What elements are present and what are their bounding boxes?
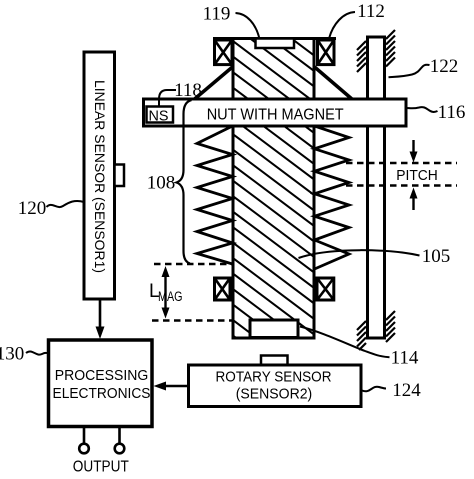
leader 120 bbox=[47, 201, 85, 207]
svg-text:105: 105 bbox=[422, 246, 451, 267]
output terminal left bbox=[79, 427, 89, 454]
screw thread flare above nut right bbox=[314, 67, 353, 100]
processing electronics 130 box bbox=[49, 340, 153, 427]
svg-text:112: 112 bbox=[357, 1, 385, 22]
fixed wall 122 bbox=[357, 30, 395, 350]
svg-text:118: 118 bbox=[174, 80, 202, 101]
lead screw shaft 105 hatched body bbox=[233, 0, 314, 396]
leader 118 bbox=[159, 90, 176, 106]
screw thread 108 left zigzag bbox=[197, 126, 233, 264]
svg-text:130: 130 bbox=[0, 344, 24, 365]
pitch dashed line upper bbox=[346, 162, 457, 164]
wire sensor1 to processing bbox=[96, 299, 105, 339]
svg-text:PROCESSING: PROCESSING bbox=[55, 367, 149, 384]
svg-text:ROTARY SENSOR: ROTARY SENSOR bbox=[216, 370, 332, 386]
leader 116 bbox=[407, 107, 438, 112]
pitch dashed line lower bbox=[346, 184, 457, 186]
bearing block bottom-right bbox=[317, 278, 334, 300]
svg-text:120: 120 bbox=[18, 198, 47, 219]
leader 105 bbox=[299, 250, 420, 258]
output terminal right bbox=[115, 427, 125, 454]
rotary magnet notch 119 bbox=[256, 39, 295, 49]
svg-text:ELECTRONICS: ELECTRONICS bbox=[53, 385, 151, 402]
rotary sensor 124 box bbox=[189, 365, 362, 407]
leader 122 bbox=[389, 65, 430, 78]
magnet NS 118 box bbox=[147, 107, 174, 125]
bearing block top-right 112 bbox=[318, 40, 335, 65]
leader 124 bbox=[362, 387, 386, 392]
Lmag arrow bbox=[162, 266, 170, 319]
shaft top cap edge bbox=[213, 37, 336, 40]
Lmag dashed line upper bbox=[154, 263, 232, 265]
bearing block top-left bbox=[215, 40, 233, 65]
pitch arrow lower bbox=[410, 188, 418, 211]
leader 130 bbox=[26, 351, 50, 354]
nut with magnet 116 box bbox=[144, 99, 407, 126]
wire rotary to processing bbox=[154, 382, 189, 391]
svg-text:(SENSOR2): (SENSOR2) bbox=[236, 387, 313, 403]
svg-text:OUTPUT: OUTPUT bbox=[73, 458, 129, 475]
svg-text:122: 122 bbox=[430, 56, 459, 77]
svg-text:114: 114 bbox=[391, 348, 419, 369]
pitch arrow upper bbox=[410, 140, 418, 163]
svg-text:119: 119 bbox=[203, 4, 231, 25]
bearing block bottom-left bbox=[215, 278, 231, 300]
Lmag dashed line lower bbox=[152, 319, 232, 321]
leader 112 bbox=[329, 12, 355, 39]
svg-text:116: 116 bbox=[438, 102, 466, 123]
lead screw shaft 105 edges bbox=[232, 39, 316, 339]
screw thread flare above nut left bbox=[194, 67, 233, 100]
svg-text:124: 124 bbox=[392, 380, 421, 401]
linear sensor side tab bbox=[115, 165, 125, 187]
Lmag label bbox=[149, 281, 183, 304]
svg-text:MAG: MAG bbox=[158, 289, 183, 304]
svg-text:PITCH: PITCH bbox=[396, 167, 438, 184]
svg-text:NS: NS bbox=[149, 108, 169, 125]
leader 114 bbox=[300, 327, 390, 358]
screw thread 108 right zigzag bbox=[315, 126, 350, 269]
rotary sensor tab bbox=[261, 356, 288, 366]
shaft magnet 114 rect bbox=[250, 320, 298, 338]
svg-text:108: 108 bbox=[147, 173, 176, 194]
leader 119 bbox=[236, 13, 260, 39]
brace 108 bbox=[177, 100, 192, 264]
linear sensor 120 box bbox=[84, 52, 115, 299]
svg-text:NUT WITH MAGNET: NUT WITH MAGNET bbox=[207, 106, 344, 123]
svg-text:LINEAR SENSOR (SENSOR1): LINEAR SENSOR (SENSOR1) bbox=[92, 80, 108, 273]
